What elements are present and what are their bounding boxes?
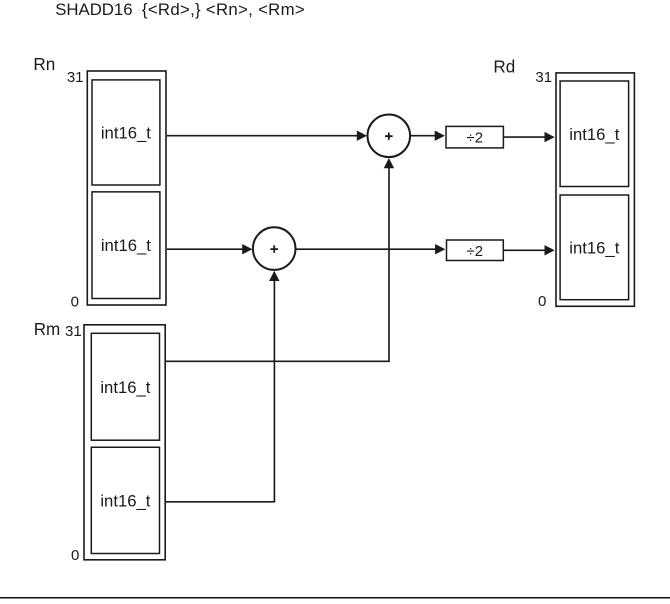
divider box 1 (÷2) (446, 126, 503, 147)
register Rm low halfword cell int16_t (91, 447, 159, 553)
divider box 2 (÷2) (447, 240, 504, 261)
register Rm outer box (84, 325, 165, 560)
svg-text:31: 31 (67, 69, 84, 86)
arrowhead into Rd high halfword (545, 132, 555, 142)
wire adder U2 to divider 2 (296, 248, 437, 250)
register Rm high halfword cell int16_t (91, 333, 159, 440)
arrowhead into adder U2 bottom (269, 271, 279, 281)
svg-text:int16_t: int16_t (100, 378, 150, 397)
arrowhead into adder U1 left (357, 131, 367, 141)
register Rd low halfword cell int16_t (560, 195, 629, 300)
svg-text:Rd: Rd (493, 57, 515, 76)
svg-text:31: 31 (65, 323, 82, 340)
register Rd high halfword cell int16_t (560, 81, 629, 187)
bottom horizontal rule (0, 597, 670, 599)
svg-text:int16_t: int16_t (569, 125, 619, 144)
arrowhead into adder U1 bottom (384, 158, 394, 168)
svg-text:Rm: Rm (34, 320, 61, 339)
wire Rm low halfword to adder U2 (right-angle up) (166, 280, 275, 502)
adder U1 (368, 115, 411, 158)
svg-text:int16_t: int16_t (101, 236, 151, 255)
wire divider 1 to Rd high halfword (504, 136, 546, 138)
register Rn low halfword cell int16_t (92, 192, 160, 299)
wire adder U1 to divider 1 (411, 135, 437, 137)
register Rn high halfword cell int16_t (92, 80, 160, 185)
svg-text:0: 0 (71, 293, 79, 310)
svg-text:Rn: Rn (33, 55, 55, 74)
wire divider 2 to Rd low halfword (504, 249, 546, 251)
wire Rn low halfword to adder U2 (167, 248, 244, 250)
svg-text:÷2: ÷2 (467, 129, 484, 146)
arrowhead into divider 2 (435, 244, 445, 254)
register Rd outer box (556, 73, 634, 306)
svg-text:int16_t: int16_t (101, 123, 151, 142)
wire Rm high halfword to adder U1 (right-angle up) (166, 168, 389, 362)
svg-text:0: 0 (538, 293, 546, 310)
svg-text:int16_t: int16_t (569, 238, 619, 257)
svg-text:int16_t: int16_t (100, 491, 150, 510)
svg-text:31: 31 (535, 69, 552, 86)
register Rn outer box (87, 71, 166, 305)
arrowhead into adder U2 left (242, 244, 252, 254)
svg-text:0: 0 (71, 547, 79, 564)
wire Rn high halfword to adder U1 (167, 135, 358, 137)
arrowhead into divider 1 (435, 131, 445, 141)
svg-text:SHADD16 {<Rd>,} <Rn>, <Rm>: SHADD16 {<Rd>,} <Rn>, <Rm> (55, 0, 305, 19)
adder U2 (253, 227, 296, 270)
arrowhead into Rd low halfword (545, 245, 555, 255)
svg-text:÷2: ÷2 (467, 243, 484, 260)
